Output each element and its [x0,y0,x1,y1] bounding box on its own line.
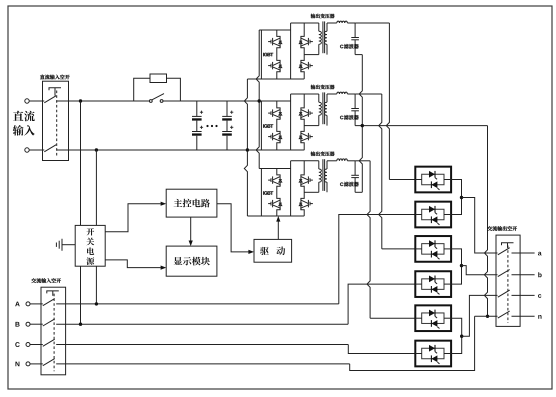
wire main control to display with arrow [190,217,192,241]
wire bridge 3 right leg [303,161,305,173]
static switch SCR module K6 [415,341,451,367]
node junction DC- bus and rail [246,148,249,151]
wire bridge 2 output to primary [304,125,319,127]
wire bridge 3 upper rail to transformer [291,160,319,162]
node junction pair 3-4 [460,264,463,267]
transistor Q3a [277,173,280,177]
label output terminal c [538,294,541,298]
label 开关电源 [86,228,94,236]
wire bridge 2 upper rail to transformer [291,93,319,95]
breaker QF3 pole 3 blade [498,290,510,297]
wire join static switches 3+4 [451,249,461,284]
wire terminal A to breaker [30,303,43,305]
wire U2 output node [355,93,382,95]
wire bridge 2 left leg [276,101,278,106]
wire main control to driver with arrow [217,204,249,252]
transformer T3 primary winding [318,161,320,169]
static switch SCR module K2 [415,202,451,228]
wire U1 output drop to static switch 1 [386,23,389,180]
capacitor C2 filter [354,94,356,109]
label output transformer 输出变压器 unit 2 [311,85,335,90]
label input terminal C [15,342,19,347]
wire bypass A riser to static switch 2 [339,215,416,304]
label IGBT bridge 1 [263,53,273,56]
wire bridge 3 left leg [276,169,278,173]
wire join static switches 1+2 [451,180,461,215]
transformer T1 secondary winding [326,23,328,31]
breaker QF3 AC output box [496,235,520,326]
wire bridge 1 bottom rail [247,78,304,80]
breaker QF3 trip bar [502,243,514,246]
label IGBT bridge 2 [263,124,273,127]
wire neutral N line [56,363,350,365]
label DC input breaker 直流输入空开 [40,75,70,80]
driver box 驱动 [254,239,292,262]
wire phase C line [56,344,348,346]
transistor Q3c [301,173,304,177]
node junction DC- rail to PSU [95,148,98,151]
inductor L2 filter [327,93,337,95]
transistor Q1a [277,34,280,38]
wire DC+ terminal to breaker [29,100,44,102]
breaker QF2 pole 2 blade [43,319,55,326]
wire DC- bus vertical [244,79,247,150]
breaker QF3 mechanical link (dashed) [507,246,509,323]
control box 主控电路 [166,189,217,217]
transistor Q1d [301,58,304,62]
label 显示模块 [174,257,210,266]
static switch SCR module K3 [415,236,451,262]
wire bridge 1 top rail [259,29,290,31]
wire driver to bridge with arrow [277,222,279,240]
wire DC+ bus vertical [256,30,259,169]
wire bypass C jog to static switch 6 [348,345,415,354]
label 主控电路 [174,199,210,208]
wire output phase b lead [512,274,535,276]
wire bridge 1 output to primary [304,54,319,56]
transformer T2 primary winding [318,94,320,102]
node junction PSU tap phase B [79,323,82,326]
breaker QF2 AC input box [41,287,66,375]
transistor Q2b [277,129,280,133]
transistor Q3b [277,196,280,200]
wire output phase c lead [512,294,535,296]
inverter bridge U1 box [260,30,262,79]
static switch SCR module K4 [415,271,451,297]
static switch SCR module K5 [415,305,451,331]
node AC input terminal C [26,343,30,347]
transformer T1 primary winding [318,23,320,31]
node DC- input terminal [25,148,29,152]
wire n input into breaker [475,315,498,317]
breaker QF2 trip bar [47,291,59,294]
wire DC+ rail (top) [56,100,149,102]
transformer T1 core [322,21,324,53]
node DC+ input terminal [25,99,29,103]
node junction PSU tap phase A [95,302,98,305]
label filter capacitor C滤波器 unit 3 [340,183,343,187]
node junction pair 1-2 [460,196,463,199]
node junction DC+ rail to PSU [79,99,82,102]
capacitor C3 filter [354,161,356,176]
wire PSU to phase B tap [80,266,82,324]
label input terminal A [15,302,20,307]
wire bridge 3 bottom rail [247,215,304,217]
wire U3 secondary bottom [355,191,362,193]
wire pair 3-4 to output b [462,266,498,275]
label input terminal B [15,322,19,327]
transformer T2 core [322,92,324,124]
node junction neutral joins n input [486,315,489,318]
node AC input terminal N [26,362,30,366]
switch K1 contact on DC+ rail [149,100,152,103]
wire PSU to phase A tap [95,266,97,304]
breaker QF1 pole 2 blade [44,145,56,152]
wire join static switches 5+6 [451,318,462,353]
wire DC- rail (bottom) [56,149,304,151]
static switch SCR module K1 [415,167,451,193]
wire terminal N to breaker [30,363,43,365]
breaker QF2 pole 1 blade [43,299,55,306]
breaker QF1 mechanical link (dashed) [56,91,58,158]
label input terminal N [15,362,19,367]
label DC input 直流输入 [13,111,35,122]
wire DC- to PSU [95,150,97,225]
breaker QF2 mechanical link (dashed) [53,294,55,372]
display box 显示模块 [166,246,217,276]
wire neutral N route under switches [350,316,475,370]
transformer T2 secondary winding [326,94,328,102]
wire U3 output drop to static switch 5 [367,161,370,318]
label output terminal b [538,272,541,277]
breaker QF1 DC input box [43,81,69,160]
transistor Q2a [277,106,280,110]
capacitor C1 bank leg 1 [196,101,198,116]
inductor L1 filter [327,22,337,24]
breaker QF1 pole 1 blade [44,96,56,103]
wire U2 secondary bottom / neutral bus [355,125,487,127]
label IGBT bridge 3 [263,191,273,194]
wire PSU to main control with arrow [105,204,161,232]
wire bridge 2 bottom rail extension [247,149,304,151]
wire output phase n lead [512,315,535,317]
breaker QF3 pole 1 blade [498,248,510,255]
power supply box 开关电源 [75,225,105,266]
wire bridge 2 right leg [303,94,305,106]
label output terminal a [538,252,542,256]
wire U1 output node [355,22,389,24]
label ellipsis more capacitors [206,125,208,127]
node AC input terminal B [26,322,30,326]
label output transformer 输出变压器 unit 3 [311,151,335,156]
wire pair 1-2 to output a [462,198,498,254]
transistor Q1c [301,34,304,38]
inverter bridge U2 box [260,101,262,150]
wire phase A line [56,303,339,305]
capacitor C2 bank leg 2 [226,101,228,116]
wire DC- terminal to breaker [29,149,44,151]
wire inverter neutral to breaker n [484,126,487,317]
breaker QF2 pole 4 blade [43,359,55,366]
wire PSU to display with arrow [105,260,161,268]
node junction neutral at U2 bottom [361,124,364,127]
transistor Q3d [301,196,304,200]
transistor Q2c [301,106,304,110]
breaker QF3 pole 4 blade [498,311,510,318]
wire U2 output drop to static switch 3 [379,94,382,249]
wire U1 secondary bottom [355,54,362,56]
ground symbol [62,244,75,246]
breaker QF3 pole 2 blade [498,270,510,277]
resistor R1 soft-start bypass [134,78,150,101]
wire phase B line [56,323,348,325]
wire pair 5-6 to output c [462,295,498,336]
node AC input terminal A [26,302,30,306]
wire bridge 1 upper rail to transformer [291,22,319,24]
wire neutral stack vertical [359,55,362,193]
label AC output breaker 交流输出空开 [487,226,517,231]
transformer T3 secondary winding [326,161,328,169]
inductor L3 filter [327,160,337,162]
label 驱动 [260,247,269,255]
label AC input breaker 交流输入空开 [31,278,61,283]
wire terminal C to breaker [30,344,43,346]
label output terminal n [538,315,541,319]
transistor Q1b [277,58,280,62]
breaker QF1 trip bar [49,88,61,91]
wire bridge 1 left leg [276,30,278,34]
label filter capacitor C滤波器 unit 2 [340,116,343,120]
label output transformer 输出变压器 unit 1 [311,14,335,19]
wire terminal B to breaker [30,323,43,325]
transformer T3 core [322,159,324,191]
wire bridge 1 right leg [303,23,305,34]
capacitor C1 filter [354,23,356,38]
wire output phase a lead [512,252,535,254]
label filter capacitor C滤波器 unit 1 [340,45,343,49]
wire U3 output node [355,160,370,162]
wire bypass B riser to static switch 4 [348,284,415,324]
wire bridge 3 output to primary [304,191,319,193]
breaker QF2 pole 3 blade [43,339,55,346]
transistor Q2d [301,129,304,133]
node junction DC+ bus and rail [258,99,261,102]
inverter bridge U3 box [260,169,262,217]
node junction pair 5-6 [460,335,463,338]
wire DC+ to PSU [80,101,82,225]
wire bridge 3 top rail [259,168,290,170]
